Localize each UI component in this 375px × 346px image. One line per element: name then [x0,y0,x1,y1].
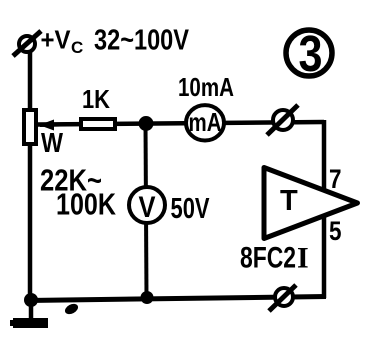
resistor R 1K body [81,119,115,129]
wire: left vertical from potentiometer bottom to bottom-left junction [28,144,33,301]
svg-text:C: C [71,38,83,57]
tube T (triangle symbol) 8FC2I [264,168,358,239]
wire: left vertical from +Vc terminal to potentiometer top [28,50,33,110]
svg-text:50V: 50V [171,193,210,225]
svg-text:10mA: 10mA [178,72,234,102]
wire: top horizontal rail from wiper through R1 and meter to right corner [38,122,324,125]
ground [10,300,48,328]
svg-text:I: I [297,242,309,275]
svg-text:T: T [280,185,298,217]
potentiometer wiper arrow [39,120,80,131]
voltmeter V [129,187,165,224]
svg-text:32~100V: 32~100V [94,25,190,57]
svg-text:8FC2: 8FC2 [240,242,296,275]
wire: middle vertical through voltmeter [146,123,147,298]
terminal: +Vc input (circle with slash) [13,31,41,56]
svg-text:7: 7 [329,164,342,194]
potentiometer W (22K~100K) body [24,110,36,144]
figure number 3 (circled) [286,25,332,82]
node: junction top (wiper/meter/voltmeter) [139,116,154,131]
terminal: top right (circle with slash) [267,105,298,135]
svg-text:5: 5 [329,216,342,246]
svg-text:W: W [41,127,63,158]
wire: right vertical rail [322,120,327,298]
svg-text:V: V [139,191,156,224]
svg-text:100K: 100K [56,187,116,222]
ammeter mA [186,105,224,140]
node: bottom-left junction [24,293,38,307]
svg-text:+V: +V [41,25,72,55]
svg-text:3: 3 [299,25,323,82]
ink blot on bottom wire [63,302,80,317]
svg-text:1K: 1K [82,84,110,114]
svg-text:mA: mA [189,107,222,137]
wire: bottom horizontal rail [28,297,326,301]
terminal: bottom right (circle with slash) [269,285,296,311]
node: bottom-middle junction [141,291,154,304]
